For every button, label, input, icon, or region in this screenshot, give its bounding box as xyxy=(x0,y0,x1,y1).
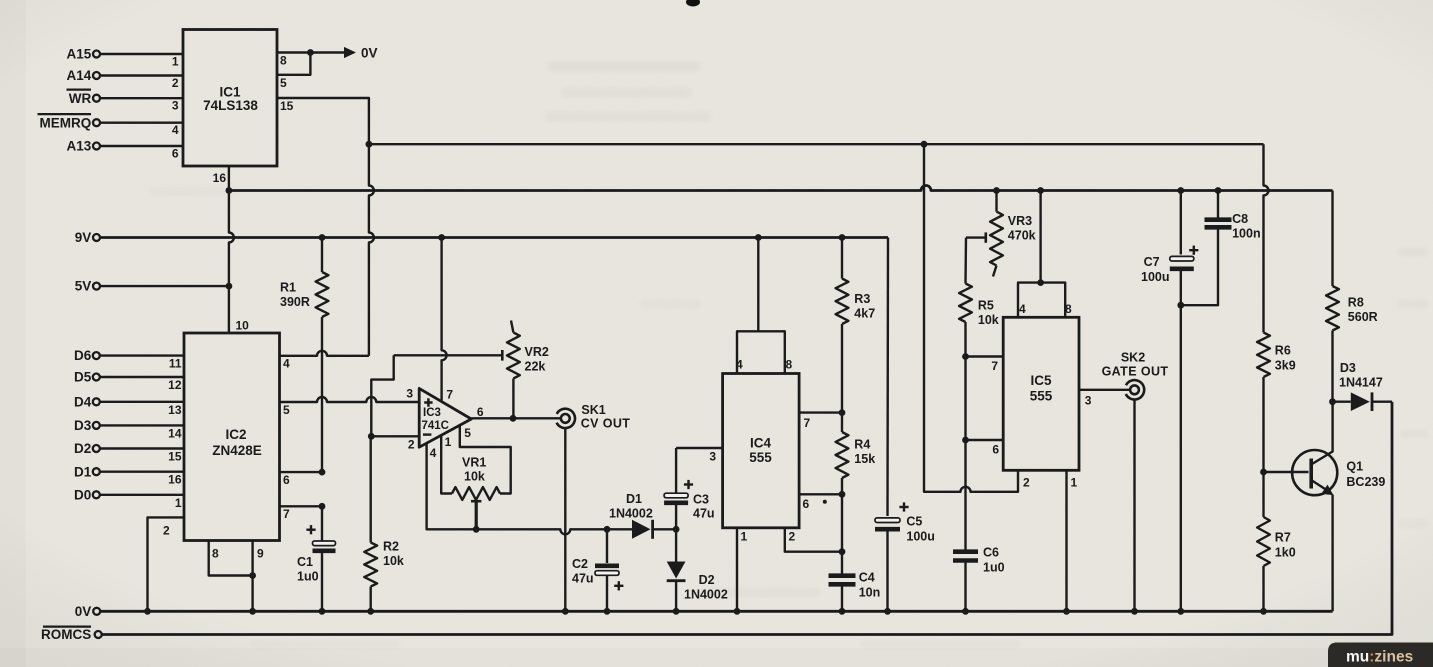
junction 0V/IC2 pin9 xyxy=(249,608,256,615)
svg-text:C1: C1 xyxy=(297,555,313,569)
R1 value label xyxy=(280,281,310,310)
svg-text:2: 2 xyxy=(172,76,179,90)
wire IC2 pin5 to IC3 pin3 (+input) xyxy=(280,397,420,402)
capacitor C7 100u xyxy=(1170,191,1199,612)
svg-text:1: 1 xyxy=(1071,476,1078,490)
svg-text:7: 7 xyxy=(283,507,290,521)
svg-text:9V: 9V xyxy=(75,230,92,245)
svg-text:VR1: VR1 xyxy=(462,456,486,470)
wire IC4 supply bracket xyxy=(737,238,785,374)
svg-text:741C: 741C xyxy=(422,420,450,432)
muzines watermark xyxy=(1328,643,1433,667)
junction line2 / IC5 supply xyxy=(1037,187,1044,194)
wire IC3 pin4 to D1 line xyxy=(427,443,632,534)
svg-text:IC5: IC5 xyxy=(1030,373,1052,388)
junction 0V/IC5 pin1 xyxy=(1063,608,1070,615)
svg-text:mu:zines: mu:zines xyxy=(1346,649,1413,666)
svg-text:IC3: IC3 xyxy=(423,407,441,419)
svg-text:12: 12 xyxy=(168,378,182,392)
junction 0V/C1 xyxy=(319,608,326,615)
svg-text:1: 1 xyxy=(445,435,452,449)
junction 0V/R2 xyxy=(367,608,374,615)
resistor R2 10k xyxy=(364,436,377,611)
VR3 value label xyxy=(1008,214,1036,243)
VR3 wiper arm xyxy=(966,232,986,242)
svg-text:VR2: VR2 xyxy=(525,345,549,359)
junction 0V/IC2 pin2 xyxy=(144,608,151,615)
junction VR1 wiper / negative line xyxy=(473,526,480,533)
IC3 minus input marker xyxy=(423,433,431,435)
wire 9V rail xyxy=(101,236,889,239)
svg-text:16: 16 xyxy=(168,473,182,487)
D1 value label xyxy=(609,492,653,521)
svg-text:4: 4 xyxy=(172,123,179,137)
svg-text:3: 3 xyxy=(406,387,413,401)
diode D3 1N4147 xyxy=(1333,392,1393,411)
svg-text:6: 6 xyxy=(283,473,290,487)
terminal D3 with wire to IC2 pin 14 xyxy=(74,418,184,433)
potentiometer VR3 470k xyxy=(990,191,1003,277)
socket SK1 CV OUT xyxy=(552,405,578,431)
capacitor C1 1u0 xyxy=(306,506,335,611)
svg-text:10k: 10k xyxy=(464,470,485,484)
svg-text:22k: 22k xyxy=(525,360,546,374)
svg-text:SK2: SK2 xyxy=(1121,351,1145,365)
R6 value label xyxy=(1275,344,1296,373)
svg-text:15k: 15k xyxy=(854,452,875,466)
svg-text:8: 8 xyxy=(1065,302,1072,316)
op IC4 555 box xyxy=(723,374,800,528)
capacitor C6 1u0 xyxy=(953,552,978,612)
svg-text:4: 4 xyxy=(736,358,743,372)
svg-text:0V: 0V xyxy=(361,45,378,60)
junction line2 start xyxy=(226,187,233,194)
resistor R3 4k7 xyxy=(836,238,849,413)
resistor R5 10k xyxy=(959,238,972,357)
junction pin8/pin9 bracket xyxy=(249,572,256,579)
junction 9V/R1 xyxy=(319,234,326,241)
wire IC2 pin7 stub xyxy=(280,505,323,507)
stray print dot xyxy=(823,500,827,504)
terminal 9V xyxy=(75,230,100,245)
junction 9V/IC3 pin7 xyxy=(438,234,445,241)
wire line1 to IC5 pin2 xyxy=(924,144,1018,492)
wire ROMCS line to D3 xyxy=(102,402,1392,635)
wire SK1 sleeve to 0V xyxy=(564,428,566,611)
svg-text:IC4: IC4 xyxy=(750,436,772,451)
svg-text:8: 8 xyxy=(786,358,793,372)
R2 value label xyxy=(383,540,404,569)
Q1 value label xyxy=(1346,460,1385,490)
svg-text:4: 4 xyxy=(283,357,290,371)
svg-text:4: 4 xyxy=(1019,302,1026,316)
junction pin7/R1 lead xyxy=(319,503,326,510)
svg-text:4k7: 4k7 xyxy=(854,307,875,321)
svg-text:C2: C2 xyxy=(572,557,588,571)
terminal D6 with wire to IC2 pin 11 xyxy=(74,348,184,363)
junction Q1 collector/R8/D3 xyxy=(1329,398,1336,405)
R5 value label xyxy=(978,299,999,328)
resistor R4 15k xyxy=(836,413,849,552)
svg-text:8: 8 xyxy=(280,54,287,68)
junction pin6/R1 lead xyxy=(319,469,326,476)
IC1 name label xyxy=(203,85,258,114)
svg-text:1: 1 xyxy=(172,55,179,69)
svg-text:47u: 47u xyxy=(572,572,594,586)
svg-text:R6: R6 xyxy=(1275,344,1291,358)
svg-text:BC239: BC239 xyxy=(1346,475,1385,489)
wire IC1 pin16 to IC2 pin10 xyxy=(229,166,234,333)
scan mark top edge xyxy=(686,0,700,7)
wire IC4 pin7 stub xyxy=(799,411,842,413)
wire IC4 pin6 stub xyxy=(799,493,842,495)
wire net line2 (supply rail to right side) xyxy=(229,186,1333,191)
svg-text:C5: C5 xyxy=(906,515,922,529)
R7 value label xyxy=(1275,531,1296,560)
IC3 plus input marker xyxy=(424,401,432,404)
resistor R1 390R xyxy=(316,238,329,473)
svg-text:1: 1 xyxy=(175,496,182,510)
svg-text:WR: WR xyxy=(69,91,92,106)
svg-text:2: 2 xyxy=(789,530,796,544)
terminal D1 with wire to IC2 pin 16 xyxy=(74,464,184,479)
svg-text:5: 5 xyxy=(464,426,471,440)
wire R5/C6 vertical xyxy=(964,357,966,550)
svg-text:5V: 5V xyxy=(75,279,92,294)
junction pin7/R3-R4 xyxy=(839,409,846,416)
terminal D4 with wire to IC2 pin 13 xyxy=(74,394,184,409)
junction 0V/R7 xyxy=(1260,608,1267,615)
svg-text:D5: D5 xyxy=(74,370,92,385)
SK2 labels xyxy=(1102,351,1169,379)
VR2 value label xyxy=(525,345,549,374)
svg-text:ROMCS: ROMCS xyxy=(41,627,91,642)
svg-text:560R: 560R xyxy=(1348,310,1378,324)
wire IC3 pin5 to VR1 right end xyxy=(460,425,511,494)
R3 value label xyxy=(854,292,875,321)
junction line2 / VR3 xyxy=(993,187,1000,194)
VR2 wiper arm xyxy=(394,350,503,361)
svg-text:1u0: 1u0 xyxy=(983,561,1005,575)
resistor R7 1k0 xyxy=(1257,472,1270,611)
svg-text:C3: C3 xyxy=(693,493,709,507)
svg-text:2: 2 xyxy=(163,524,170,538)
IC2 name label xyxy=(212,427,262,458)
svg-text:MEMRQ: MEMRQ xyxy=(40,115,92,130)
svg-text:D3: D3 xyxy=(74,418,92,433)
IC3 name label xyxy=(422,407,450,432)
svg-text:10: 10 xyxy=(236,319,250,333)
svg-text:R5: R5 xyxy=(978,299,994,313)
junction pin6/R4 lead xyxy=(839,491,846,498)
capacitor C3 47u xyxy=(664,448,693,529)
junction 0V/D2 xyxy=(673,608,680,615)
svg-text:74LS138: 74LS138 xyxy=(203,98,258,113)
junction 0V/C6 xyxy=(962,608,969,615)
svg-text:D1: D1 xyxy=(626,492,642,506)
svg-text:R3: R3 xyxy=(854,292,870,306)
wire IC2 pin 4 horizontal xyxy=(280,351,369,356)
terminal D0 with wire to IC2 pin 1 xyxy=(74,487,184,502)
edge shading xyxy=(0,0,26,667)
VR1 wiper arm xyxy=(471,501,481,529)
svg-text:10k: 10k xyxy=(383,554,404,568)
0V arrow head xyxy=(344,47,356,58)
capacitor C2 47u xyxy=(595,529,623,611)
svg-text:13: 13 xyxy=(168,403,182,417)
IC1 pin 8 wire xyxy=(277,51,345,53)
scan smudges xyxy=(150,62,1428,648)
svg-text:6: 6 xyxy=(477,405,484,419)
wire IC2 pin6 stub xyxy=(280,471,323,473)
svg-text:5: 5 xyxy=(280,76,287,90)
op IC2 ZN428E box xyxy=(184,333,280,541)
svg-text:D2: D2 xyxy=(74,441,91,456)
svg-text:D4: D4 xyxy=(74,394,92,409)
terminal MEMRQ with wire to IC1 pin 4 xyxy=(38,114,184,130)
IC1 pin 5 link wire xyxy=(277,53,310,75)
junction pin15-net / gate line xyxy=(366,141,373,148)
svg-text:D0: D0 xyxy=(74,487,91,502)
svg-text:3: 3 xyxy=(172,99,179,113)
svg-text:A13: A13 xyxy=(67,139,92,154)
terminal A13 with wire to IC1 pin 6 xyxy=(67,139,183,154)
transistor Q1 BC239 xyxy=(1264,402,1338,612)
C2 value label xyxy=(572,557,594,586)
R4 value label xyxy=(854,438,875,467)
svg-text:1k0: 1k0 xyxy=(1275,546,1296,560)
wire VR2 wiper jog to -input xyxy=(371,355,393,436)
svg-text:14: 14 xyxy=(168,426,182,440)
wire IC5 pin1 to 0V xyxy=(1065,470,1067,611)
svg-text:2: 2 xyxy=(408,437,415,451)
junction IC1 pin8/pin5 xyxy=(307,49,314,56)
svg-text:R1: R1 xyxy=(280,281,296,295)
svg-text:470k: 470k xyxy=(1008,229,1036,243)
svg-text:1: 1 xyxy=(741,530,748,544)
terminal D2 with wire to IC2 pin 15 xyxy=(74,441,184,456)
svg-text:A15: A15 xyxy=(67,47,92,62)
svg-text:C6: C6 xyxy=(983,546,999,560)
wire net line1 (to IC5/Q1 side) xyxy=(369,143,1264,145)
svg-text:15: 15 xyxy=(280,99,294,113)
svg-text:SK1: SK1 xyxy=(581,403,605,417)
svg-text:D2: D2 xyxy=(699,573,715,587)
svg-text:R7: R7 xyxy=(1275,531,1291,545)
resistor R8 560R xyxy=(1326,191,1339,402)
IC4 name label xyxy=(749,436,772,466)
capacitor C4 10n xyxy=(829,552,856,612)
SK1 labels xyxy=(581,403,631,431)
wire IC4 pin3 to C3 xyxy=(676,447,723,449)
junction 0V/C4 xyxy=(839,608,846,615)
wire 0V rail xyxy=(101,610,1333,613)
svg-text:D3: D3 xyxy=(1340,361,1356,375)
svg-text:7: 7 xyxy=(804,416,811,430)
wire IC1 pin15 to IC2 pin4 (vertical with hops) xyxy=(277,98,374,356)
svg-text:11: 11 xyxy=(169,357,182,371)
terminal A15 with wire to IC1 pin 1 xyxy=(67,47,183,62)
junction R5/IC5 pin7 xyxy=(962,353,969,360)
svg-text:R4: R4 xyxy=(854,438,870,452)
svg-text:Q1: Q1 xyxy=(1346,460,1363,474)
terminal 5V xyxy=(75,279,100,294)
svg-text:7: 7 xyxy=(991,359,998,373)
svg-text:555: 555 xyxy=(1030,389,1053,404)
svg-text:6: 6 xyxy=(992,443,999,457)
junction 0V/SK2 xyxy=(1131,608,1138,615)
junction 0V/C5 xyxy=(884,608,891,615)
junction output/VR2 xyxy=(510,415,517,422)
wire IC2 pin2 to 0V xyxy=(148,517,185,611)
wire IC5 supply bracket xyxy=(1018,191,1065,318)
junction 9V/IC4 supply xyxy=(755,234,762,241)
wire IC4 pin1 to 0V xyxy=(736,528,738,612)
junction 0V/IC4 pin1 xyxy=(734,608,741,615)
svg-text:100u: 100u xyxy=(906,530,935,544)
wire IC3 pin6 output xyxy=(471,417,560,419)
svg-text:ZN428E: ZN428E xyxy=(212,443,262,458)
junction line2 / C7 xyxy=(1177,187,1184,194)
svg-text:7: 7 xyxy=(446,388,453,402)
C5 value label xyxy=(906,515,935,544)
C1 value label xyxy=(297,555,319,584)
R8 value label xyxy=(1348,296,1378,325)
svg-text:1N4002: 1N4002 xyxy=(609,507,653,521)
potentiometer VR2 22k xyxy=(507,321,520,419)
D2 value label xyxy=(684,573,728,602)
wire IC2 pin8/pin9 bracket to 0V xyxy=(209,541,253,612)
svg-text:6: 6 xyxy=(803,497,810,511)
wire IC3 pin1 to VR1 left end xyxy=(441,435,452,493)
svg-text:8: 8 xyxy=(212,547,219,561)
svg-text:R2: R2 xyxy=(383,540,399,554)
C6 value label xyxy=(983,546,1005,575)
C7 value label xyxy=(1141,255,1170,284)
svg-text:5: 5 xyxy=(283,403,290,417)
C3 value label xyxy=(693,493,715,521)
svg-text:100u: 100u xyxy=(1141,270,1170,284)
potentiometer VR1 10k body xyxy=(452,487,500,500)
junction 9V/R3 xyxy=(839,234,846,241)
svg-text:R8: R8 xyxy=(1348,296,1364,310)
terminal 0V xyxy=(75,604,100,619)
socket SK2 GATE OUT xyxy=(1121,377,1147,403)
wire SK2 sleeve to 0V xyxy=(1133,400,1135,612)
junction 0V/C2 xyxy=(604,608,611,615)
svg-text:15: 15 xyxy=(168,450,182,464)
svg-text:GATE OUT: GATE OUT xyxy=(1102,365,1169,379)
wire 5V line xyxy=(101,285,229,287)
D3 value label xyxy=(1339,361,1383,390)
op IC1 74LS138 box xyxy=(183,30,277,167)
junction C7/C8 bottom xyxy=(1177,302,1184,309)
svg-text:555: 555 xyxy=(749,450,772,465)
junction pin2/C4 lead xyxy=(839,548,846,555)
junction line2 / C8 xyxy=(1215,187,1222,194)
wire IC5 pin6 stub xyxy=(966,439,1004,441)
svg-text:3: 3 xyxy=(709,450,716,464)
svg-text:1N4147: 1N4147 xyxy=(1339,376,1383,390)
svg-text:390R: 390R xyxy=(280,295,310,309)
terminal ROMCS xyxy=(41,627,102,642)
junction Q1 base node xyxy=(1260,469,1267,476)
svg-text:1u0: 1u0 xyxy=(297,570,319,584)
junction D1 line / C2 xyxy=(604,526,611,533)
diode D1 1N4002 xyxy=(632,520,676,539)
svg-text:IC2: IC2 xyxy=(225,427,246,442)
svg-text:3k9: 3k9 xyxy=(1275,359,1296,373)
svg-text:CV OUT: CV OUT xyxy=(581,417,631,431)
svg-text:D1: D1 xyxy=(74,464,92,479)
terminal D5 with wire to IC2 pin 12 xyxy=(74,370,184,385)
capacitor C5 100u xyxy=(875,238,909,612)
op IC5 555 box xyxy=(1003,317,1079,470)
wire IC5 pin3 to SK2 xyxy=(1079,389,1130,391)
svg-text:A14: A14 xyxy=(67,68,92,83)
capacitor C8 100n xyxy=(1181,191,1232,306)
C8 value label xyxy=(1232,212,1261,241)
svg-text:2: 2 xyxy=(1023,476,1030,490)
junction IC5 bracket xyxy=(1037,279,1044,286)
svg-text:10k: 10k xyxy=(978,313,999,327)
svg-text:4: 4 xyxy=(430,446,437,460)
svg-text:D6: D6 xyxy=(74,348,92,363)
svg-text:47u: 47u xyxy=(693,507,715,521)
junction 0V/SK1 xyxy=(562,608,569,615)
svg-text:16: 16 xyxy=(213,171,227,185)
svg-text:3: 3 xyxy=(1085,394,1092,408)
svg-text:VR3: VR3 xyxy=(1008,214,1032,228)
junction 0V/C7 xyxy=(1177,608,1184,615)
svg-text:C7: C7 xyxy=(1144,255,1160,269)
svg-text:C8: C8 xyxy=(1232,212,1248,226)
junction line1 / IC5-trigger drop xyxy=(921,141,928,148)
terminal WR with wire to IC1 pin 3 xyxy=(67,90,184,106)
svg-text:C4: C4 xyxy=(859,571,875,585)
junction D1/C3/D2 xyxy=(673,526,680,533)
svg-text:0V: 0V xyxy=(75,604,92,619)
terminal A14 with wire to IC1 pin 2 xyxy=(67,68,183,83)
junction -input/R2/VR2 wiper xyxy=(368,433,375,440)
wire IC5 pin7 stub xyxy=(966,355,1004,357)
IC5 name label xyxy=(1030,373,1053,404)
junction 5V/IC supply vertical xyxy=(226,283,233,290)
svg-text:1N4002: 1N4002 xyxy=(684,588,728,602)
svg-text:6: 6 xyxy=(172,147,179,161)
diode D2 1N4002 xyxy=(667,529,686,611)
svg-text:10n: 10n xyxy=(859,586,881,600)
wire IC3 pin7 to 9V xyxy=(442,238,447,401)
VR1 value label xyxy=(462,456,486,484)
wire IC3 pin2 (-input) xyxy=(371,435,419,437)
junction R5/IC5 pin6 xyxy=(962,437,969,444)
resistor R6 3k9 xyxy=(1257,144,1270,472)
wire IC4 pin2 link xyxy=(785,528,842,552)
svg-text:100n: 100n xyxy=(1232,227,1261,241)
op-amp IC3 741C triangle xyxy=(419,388,471,447)
C4 value label xyxy=(859,571,881,600)
svg-text:9: 9 xyxy=(257,547,264,561)
